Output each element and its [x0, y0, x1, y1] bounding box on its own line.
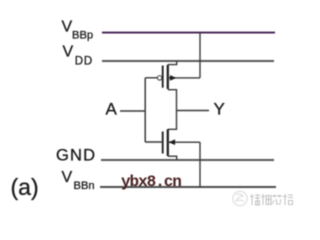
transistor M2 NMOS drain: [168, 111, 177, 130]
transistor M2 NMOS channel: [167, 129, 169, 156]
svg-text:BBn: BBn: [74, 180, 95, 192]
transistor M1 PMOS channel: [167, 65, 169, 89]
transistor M1 PMOS source to VDD: [168, 61, 177, 65]
svg-text:DD: DD: [75, 55, 93, 67]
svg-text:A: A: [106, 99, 118, 118]
svg-text:V: V: [63, 44, 74, 61]
svg-text:V: V: [62, 169, 73, 186]
transistor M1 PMOS body arrow: [170, 75, 177, 81]
svg-text:Y: Y: [214, 100, 225, 119]
wire gate bus: [144, 78, 146, 142]
wire GND rail: [101, 159, 274, 161]
label VBBn: [62, 169, 95, 192]
svg-text:BBp: BBp: [72, 30, 93, 42]
watermark logo circle: [233, 191, 247, 205]
svg-text:ybx8.cn: ybx8.cn: [121, 173, 181, 191]
wire input A: [120, 110, 145, 112]
svg-text:GND: GND: [56, 147, 96, 165]
svg-text:(a): (a): [11, 174, 39, 200]
transistor M2 NMOS gate plate: [162, 132, 164, 154]
wire VBBn rail: [100, 186, 276, 188]
svg-text:V: V: [62, 19, 73, 36]
transistor M1 PMOS body wire: [168, 77, 200, 79]
wire PMOS body to VBBp: [199, 33, 201, 78]
label VDD: [63, 44, 94, 68]
transistor M2 NMOS body arrow: [169, 139, 176, 145]
wire VDD rail: [102, 60, 274, 62]
transistor M1 PMOS drain: [168, 90, 177, 111]
watermark chinese text: [250, 194, 293, 205]
wire NMOS body to VBBn: [199, 142, 201, 187]
transistor M2 NMOS source to GND: [168, 156, 177, 160]
transistor M2 NMOS body wire: [168, 141, 200, 143]
transistor M1 PMOS gate wire: [145, 77, 157, 79]
label VBBp: [62, 19, 94, 42]
wire output Y: [177, 110, 210, 112]
transistor M2 NMOS gate wire: [145, 141, 163, 143]
wire VBBp rail: [102, 32, 275, 34]
transistor M1 PMOS gate plate: [162, 66, 164, 88]
transistor M1 PMOS gate bubble: [158, 76, 162, 80]
